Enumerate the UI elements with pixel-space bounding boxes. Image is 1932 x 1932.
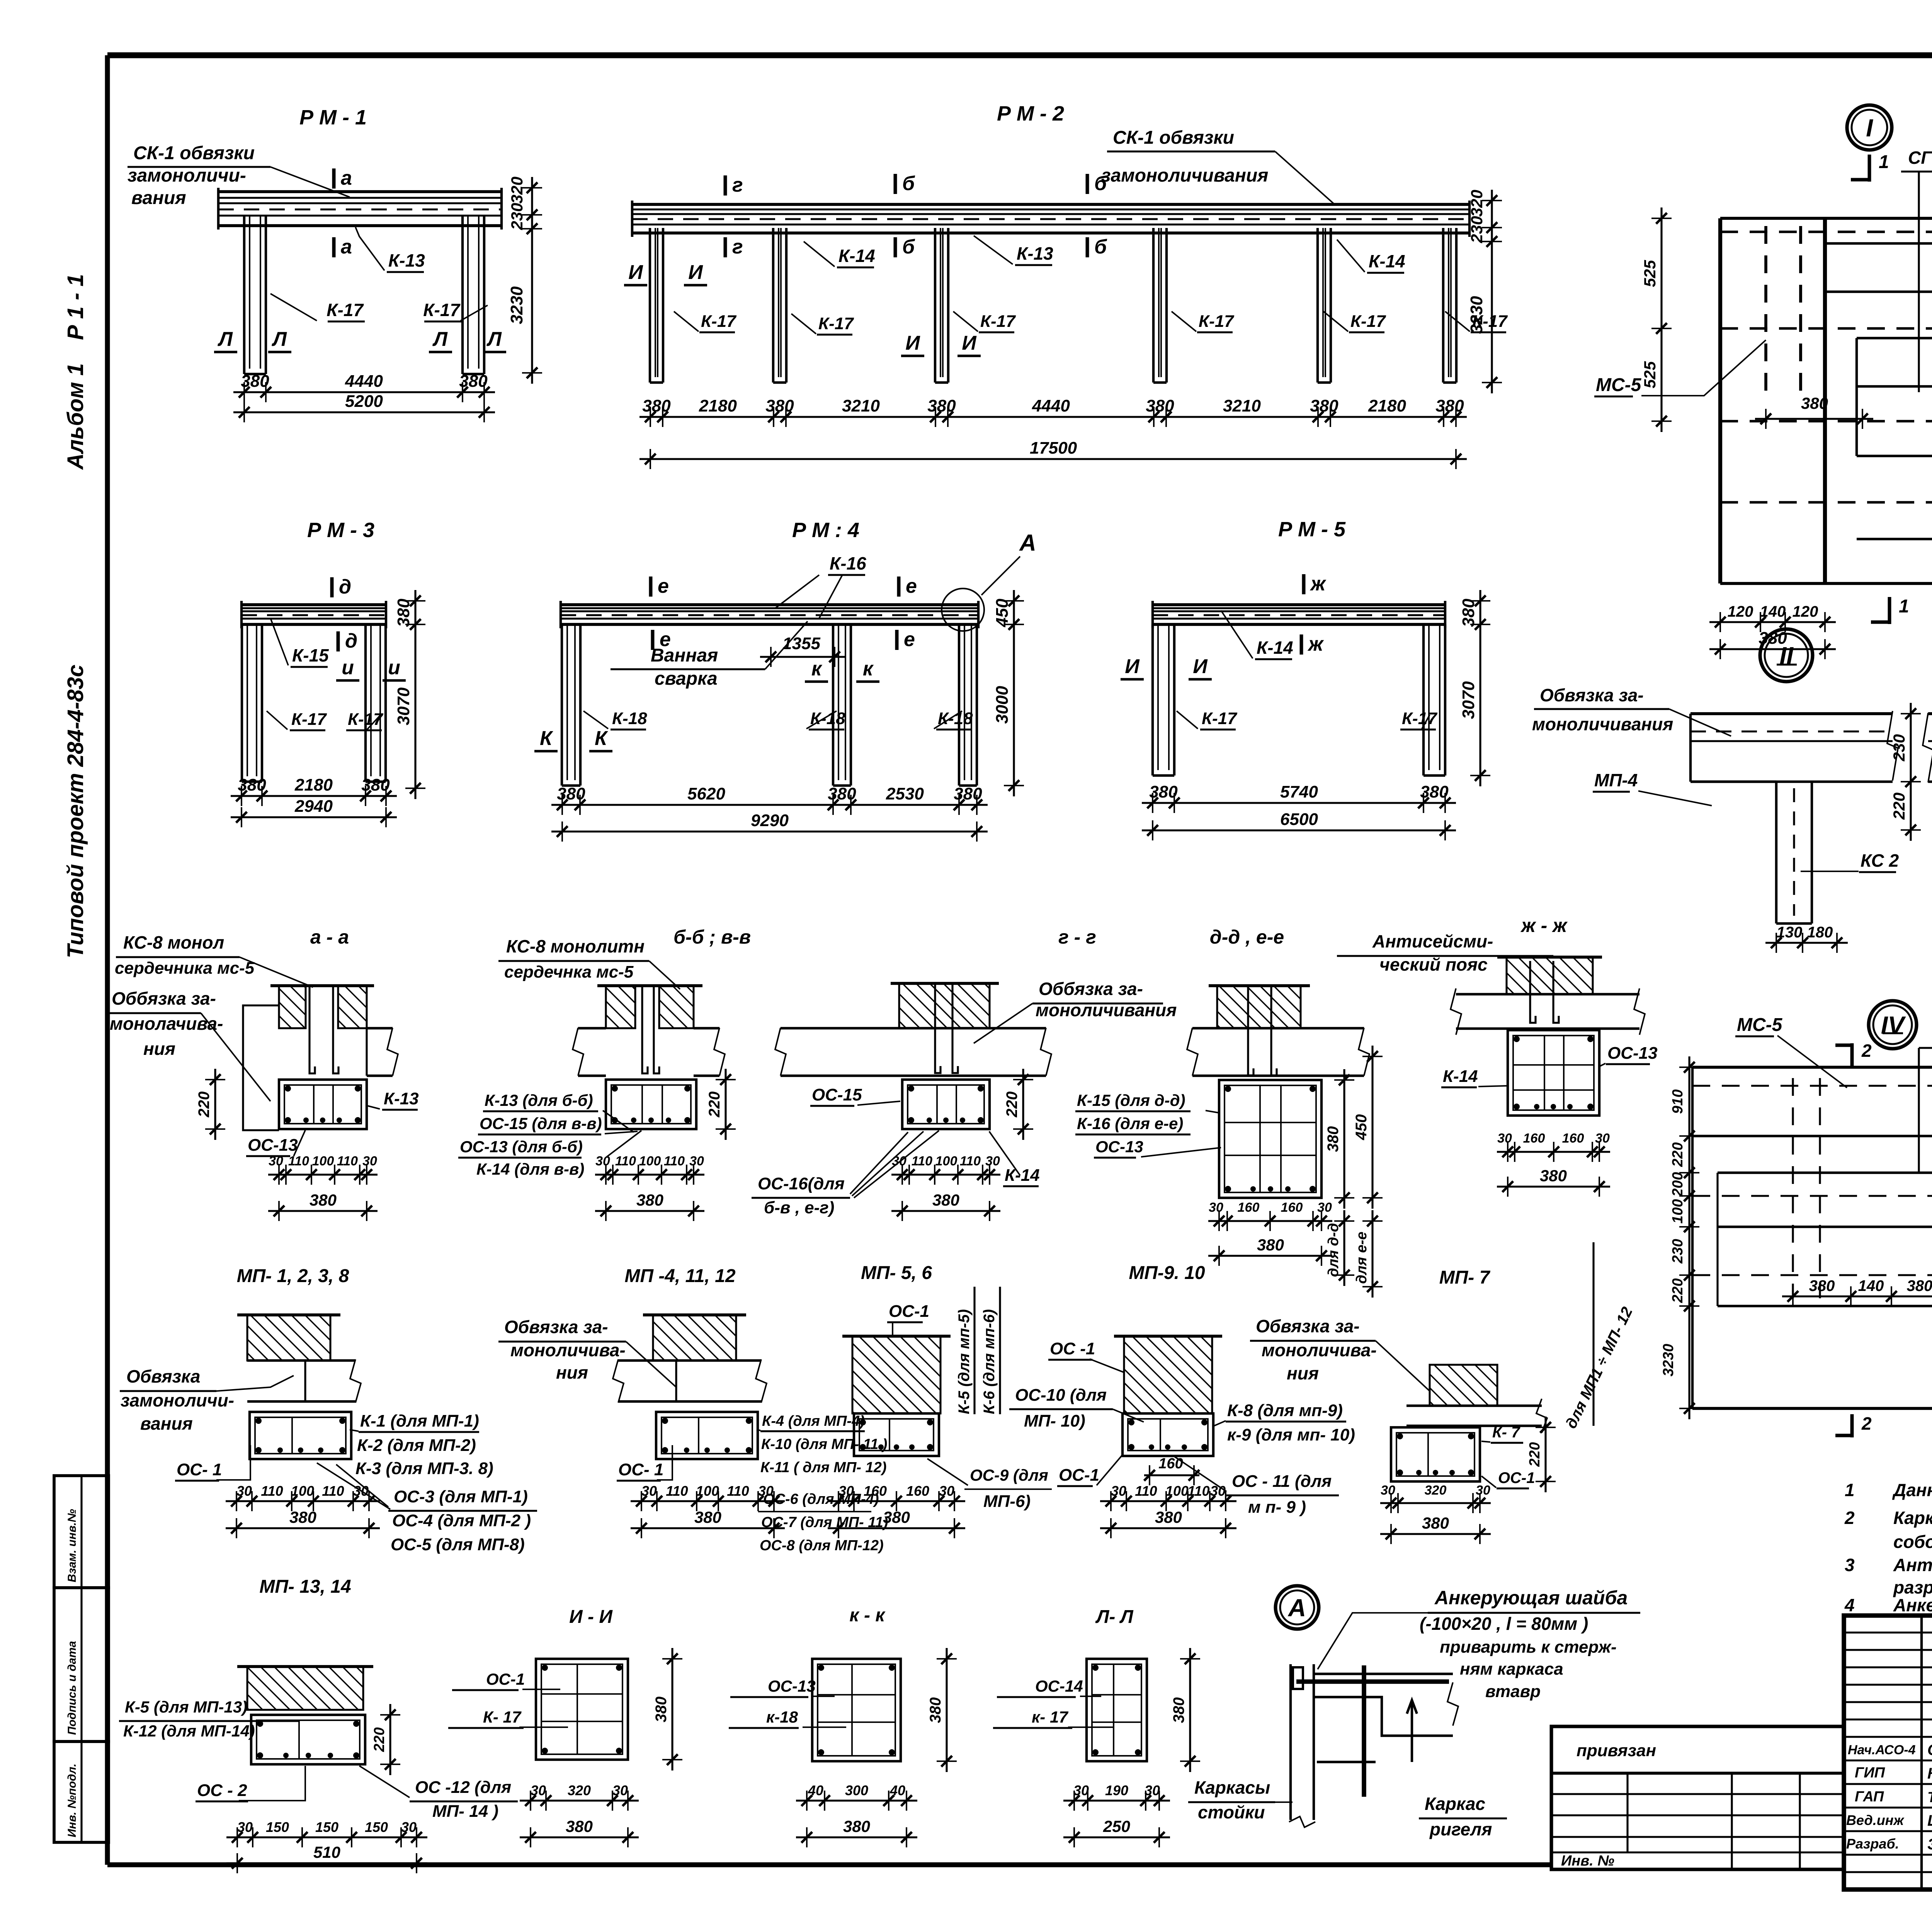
svg-text:120: 120: [1793, 603, 1818, 620]
svg-text:Л: Л: [217, 328, 233, 350]
svg-text:и: и: [342, 656, 354, 679]
svg-text:Данный лист см. совместно: Данный лист см. совместно с листами АС-8…: [1892, 1480, 1932, 1500]
svg-text:110: 110: [1187, 1483, 1209, 1499]
node I plan dashed core MS-5: [1764, 226, 1767, 392]
svg-text:б-б ; в-в: б-б ; в-в: [673, 926, 751, 948]
svg-text:380: 380: [310, 1191, 337, 1209]
svg-text:А: А: [1019, 530, 1036, 556]
svg-text:Ванная: Ванная: [651, 645, 718, 666]
svg-text:30: 30: [892, 1154, 906, 1168]
svg-text:5740: 5740: [1280, 782, 1318, 801]
node I circle: [1847, 105, 1892, 150]
node IV plan outer rect: [1692, 1066, 1932, 1069]
leader ankernaya to washer: [1318, 1613, 1428, 1669]
node I plan dashed line 3: [1720, 420, 1932, 422]
svg-text:380: 380: [394, 599, 413, 627]
node A circle: [1276, 1586, 1319, 1629]
svg-text:100: 100: [639, 1154, 661, 1168]
svg-text:Взам. инв.№: Взам. инв.№: [66, 1509, 78, 1582]
svg-text:30: 30: [595, 1154, 610, 1168]
svg-text:380: 380: [1907, 1277, 1932, 1294]
svg-text:110: 110: [261, 1483, 283, 1499]
frame RM-4 column 3: [958, 624, 960, 786]
svg-text:ОС-10 (для: ОС-10 (для: [1015, 1386, 1107, 1405]
node I vertical dim 525 525: [1660, 207, 1662, 432]
svg-text:е: е: [904, 628, 915, 651]
RM-1 right vertical dimensions 320 230 3230: [531, 177, 533, 384]
detail MP-7 drawing: [1430, 1365, 1497, 1406]
svg-text:380: 380: [1435, 396, 1464, 415]
svg-text:К-17: К-17: [818, 314, 854, 333]
svg-text:привязан: привязан: [1577, 1741, 1656, 1760]
detail I-I square: [536, 1659, 628, 1760]
RM-1 dimension row 380 4440 380: [233, 391, 495, 393]
svg-text:230: 230: [1670, 1239, 1686, 1264]
svg-text:МП -4, 11, 12: МП -4, 11, 12: [624, 1266, 735, 1286]
svg-text:разработаны на листе АС-15: разработаны на листе АС-15: [1893, 1577, 1932, 1597]
svg-text:17500: 17500: [1030, 439, 1077, 457]
svg-text:220: 220: [1527, 1442, 1543, 1467]
svg-text:5200: 5200: [345, 392, 383, 411]
svg-text:3230: 3230: [1660, 1344, 1677, 1377]
leader fan to b-b cage: [603, 1111, 634, 1132]
RM-3 dimension row 2940: [231, 816, 397, 818]
frame RM-1 left column K-17: [243, 216, 245, 374]
svg-text:К-5 (для МП-13): К-5 (для МП-13): [125, 1698, 247, 1716]
node IV inner dims 380 140 380: [1782, 1295, 1932, 1297]
svg-text:380: 380: [1422, 1514, 1449, 1532]
frame RM-1 beam: [218, 190, 502, 193]
svg-text:ОС-13: ОС-13: [248, 1136, 298, 1155]
section zh-zh cage: [1508, 1030, 1599, 1116]
frame RM-4 column 2: [832, 624, 834, 786]
svg-text:4440: 4440: [345, 372, 383, 391]
svg-text:380: 380: [1809, 1277, 1835, 1294]
svg-text:МП- 13, 14: МП- 13, 14: [259, 1577, 351, 1597]
node II step: [1690, 781, 1776, 783]
svg-text:сварка: сварка: [655, 668, 718, 689]
svg-text:Подпись и дата: Подпись и дата: [66, 1641, 78, 1735]
frame RM-2 column 2: [772, 228, 774, 383]
node A beam cage horizontal: [1314, 1673, 1453, 1675]
svg-text:2180: 2180: [699, 396, 737, 415]
svg-text:380: 380: [932, 1191, 959, 1209]
svg-text:ОС-9 (для: ОС-9 (для: [970, 1466, 1048, 1484]
svg-text:ж: ж: [1310, 573, 1327, 595]
detail MP-1 drawing: [247, 1315, 330, 1361]
detail MP-9 drawing: [1124, 1336, 1212, 1413]
node IV plan solid bands: [1692, 1135, 1932, 1137]
I-I right 380 dim: [671, 1648, 673, 1770]
svg-text:К-13: К-13: [384, 1089, 419, 1108]
zh mark upper: [1302, 574, 1306, 594]
frame RM-5 beam: [1153, 603, 1445, 606]
svg-text:4440: 4440: [1032, 396, 1070, 415]
svg-text:380: 380: [1155, 1508, 1182, 1526]
svg-text:ОС-8 (для МП-12): ОС-8 (для МП-12): [760, 1537, 884, 1554]
MP-4 dims: [631, 1500, 785, 1502]
MP-5 dims: [828, 1500, 965, 1502]
svg-text:А: А: [1287, 1594, 1306, 1622]
svg-text:Цогоева: Цогоева: [1927, 1812, 1932, 1829]
section b-b cage: [606, 1080, 696, 1129]
svg-text:Анкеры СА-1 см. в альбоме: Анкеры СА-1 см. в альбоме серии 2.140-1с…: [1893, 1595, 1932, 1615]
frame RM-3 right column: [364, 624, 367, 782]
svg-text:К-14: К-14: [1443, 1067, 1478, 1086]
svg-text:к- 17: к- 17: [1032, 1708, 1068, 1726]
svg-text:К: К: [540, 727, 553, 750]
svg-text:ческий пояс: ческий пояс: [1379, 954, 1488, 975]
section d-d rebar hooks: [1248, 986, 1253, 1075]
svg-text:Оббязка за-: Оббязка за-: [112, 988, 216, 1009]
svg-text:ОС-15: ОС-15: [812, 1085, 862, 1104]
svg-text:160: 160: [1562, 1131, 1584, 1146]
svg-text:ГИП: ГИП: [1855, 1765, 1885, 1781]
svg-text:ОС-16(для: ОС-16(для: [758, 1174, 845, 1193]
svg-text:И: И: [1125, 655, 1140, 678]
node IV plan dashed lines: [1692, 1085, 1932, 1087]
svg-text:380: 380: [289, 1508, 316, 1526]
section d-d cage: [1219, 1080, 1321, 1198]
section b-b bands: [578, 1027, 606, 1029]
svg-text:110: 110: [912, 1154, 932, 1168]
svg-text:450: 450: [1353, 1114, 1370, 1141]
detail MP-5 drawing: [852, 1336, 940, 1413]
RM-2 dimension row widths: [639, 416, 1467, 418]
svg-text:К-13: К-13: [1017, 243, 1053, 264]
node I plan step rect: [1857, 337, 1932, 339]
RM-2 dimension row 17500: [639, 458, 1467, 460]
svg-text:Типовой проект 284-4-83с: Типовой проект 284-4-83с: [63, 665, 88, 958]
svg-text:К-12 (для МП-14): К-12 (для МП-14): [123, 1722, 255, 1740]
svg-text:110: 110: [288, 1154, 309, 1168]
svg-text:40: 40: [808, 1782, 823, 1798]
svg-text:К-17: К-17: [423, 300, 461, 320]
svg-text:К-18: К-18: [938, 709, 973, 728]
I-I dims: [520, 1799, 639, 1801]
svg-text:320: 320: [508, 177, 526, 204]
svg-text:вания: вания: [131, 188, 186, 208]
svg-text:К- 7: К- 7: [1492, 1424, 1520, 1441]
e marks RM-4: [649, 577, 653, 597]
svg-text:140: 140: [1760, 603, 1786, 620]
svg-text:К-16: К-16: [830, 553, 866, 573]
svg-text:380: 380: [1801, 394, 1828, 412]
svg-text:МП-6): МП-6): [983, 1492, 1031, 1511]
frame RM-4 column 1: [561, 624, 563, 786]
svg-text:ОС- 1: ОС- 1: [177, 1460, 222, 1479]
svg-text:ОС-13 (для б-б): ОС-13 (для б-б): [460, 1138, 583, 1156]
svg-text:30: 30: [838, 1483, 854, 1499]
svg-text:380: 380: [1149, 782, 1178, 801]
svg-text:моноличива-: моноличива-: [1262, 1340, 1377, 1360]
svg-text:И: И: [905, 332, 920, 354]
svg-text:Л: Л: [486, 328, 502, 350]
svg-text:Антисейсмические пояса и об: Антисейсмические пояса и обвязки замонол…: [1893, 1555, 1932, 1575]
svg-text:ОС-3 (для МП-1): ОС-3 (для МП-1): [394, 1487, 528, 1506]
leader SK-1 to beam: [270, 167, 350, 197]
svg-text:150: 150: [315, 1819, 338, 1835]
svg-text:100: 100: [696, 1483, 719, 1499]
svg-text:МП-4: МП-4: [1594, 770, 1638, 790]
title block outer frame: [1844, 1616, 1932, 1889]
svg-text:30: 30: [1145, 1782, 1160, 1798]
node II slab: [1690, 712, 1893, 715]
svg-text:К-8 (для мп-9): К-8 (для мп-9): [1227, 1401, 1343, 1420]
svg-text:К-16 (для е-е): К-16 (для е-е): [1077, 1114, 1183, 1133]
svg-text:к: к: [811, 658, 823, 680]
svg-text:Обвязка за-: Обвязка за-: [1256, 1316, 1360, 1336]
RM-5 dimension row 380 5740 380: [1142, 802, 1456, 804]
svg-text:К-13: К-13: [388, 250, 425, 270]
section mark b upper 1: [894, 174, 897, 194]
svg-text:ОС - 11 (для: ОС - 11 (для: [1232, 1472, 1332, 1491]
svg-text:40: 40: [889, 1782, 905, 1798]
svg-text:г: г: [732, 236, 743, 258]
svg-text:СК-1 обвязки: СК-1 обвязки: [133, 143, 255, 163]
svg-text:к: к: [863, 658, 874, 680]
svg-text:2180: 2180: [294, 776, 333, 794]
svg-text:380: 380: [238, 776, 266, 794]
detail L-L rect: [1087, 1659, 1147, 1761]
title block small table rows upper: [1844, 1631, 1932, 1633]
svg-text:380: 380: [927, 1697, 944, 1723]
section mark a lower: [332, 237, 336, 257]
svg-text:1: 1: [1899, 596, 1909, 617]
svg-text:а: а: [341, 236, 352, 258]
svg-text:110: 110: [727, 1483, 749, 1499]
stamp box Podpis i data: [54, 1588, 109, 1742]
RM-4 right vertical dimensions 450 3000: [1013, 590, 1015, 796]
svg-text:К-18: К-18: [810, 709, 845, 728]
section a-a left step outline: [243, 1005, 279, 1130]
svg-text:К-2 (для МП-2): К-2 (для МП-2): [357, 1436, 476, 1455]
svg-text:замоноличи-: замоноличи-: [128, 165, 246, 186]
svg-text:и: и: [388, 656, 400, 679]
svg-text:Каркас: Каркас: [1425, 1794, 1485, 1814]
svg-text:380: 380: [883, 1508, 910, 1526]
section cut mark 1 bottom: [1888, 597, 1891, 624]
section mark g lower: [724, 237, 727, 257]
svg-text:100: 100: [1165, 1483, 1189, 1499]
svg-text:а: а: [341, 167, 352, 189]
svg-text:К-17: К-17: [348, 710, 384, 729]
svg-text:ния: ния: [143, 1039, 175, 1059]
svg-text:КС-8 монолитн: КС-8 монолитн: [506, 936, 645, 956]
svg-text:380: 380: [927, 396, 956, 415]
svg-text:К-5 (для мп-5): К-5 (для мп-5): [956, 1309, 973, 1414]
K-K dims: [796, 1799, 917, 1801]
svg-text:110: 110: [666, 1483, 688, 1499]
svg-text:ОС-1: ОС-1: [486, 1670, 525, 1688]
detail MP-4 drawing: [653, 1315, 736, 1361]
section zh-zh band: [1456, 993, 1639, 995]
svg-text:Л- Л: Л- Л: [1095, 1607, 1133, 1627]
svg-text:ОС - 2: ОС - 2: [197, 1781, 247, 1800]
sheet frame left border: [105, 55, 110, 1865]
svg-text:Кулибаба: Кулибаба: [1927, 1765, 1932, 1782]
svg-text:Тахтаганов: Тахтаганов: [1927, 1789, 1932, 1806]
svg-text:30: 30: [1111, 1483, 1126, 1499]
svg-text:ОС-15 (для в-в): ОС-15 (для в-в): [480, 1114, 602, 1133]
svg-text:380: 380: [653, 1697, 670, 1723]
svg-text:Каркасы стоек и ригелей ра: Каркасы стоек и ригелей рам сварить межд…: [1893, 1508, 1932, 1528]
section mark b upper 2: [1086, 174, 1089, 194]
svg-text:30: 30: [1595, 1131, 1610, 1146]
svg-text:К-15: К-15: [292, 645, 329, 665]
svg-text:к-9 (для мп- 10): к-9 (для мп- 10): [1227, 1425, 1355, 1444]
svg-text:К-14: К-14: [838, 246, 875, 266]
svg-text:3230: 3230: [1467, 296, 1486, 334]
svg-text:200: 200: [1670, 1172, 1686, 1197]
svg-text:а - а: а - а: [310, 926, 349, 948]
svg-text:30: 30: [401, 1819, 417, 1835]
svg-text:110: 110: [664, 1154, 685, 1168]
svg-text:собой.: собой.: [1893, 1532, 1932, 1552]
node I plan dashed line 1: [1720, 231, 1932, 233]
node I bottom dims 120 140 120: [1709, 621, 1836, 623]
svg-text:К: К: [595, 727, 608, 750]
svg-text:100: 100: [1670, 1199, 1686, 1223]
RM-3 right vertical dimensions 380 3070: [414, 590, 416, 799]
svg-text:Р М : 4: Р М : 4: [792, 519, 859, 542]
svg-text:КС 2: КС 2: [1861, 850, 1899, 871]
svg-text:380: 380: [459, 372, 488, 391]
section g-g hatched block: [899, 983, 990, 1028]
svg-text:приварить к стерж-: приварить к стерж-: [1440, 1638, 1617, 1656]
node I plan wall verticals: [1718, 218, 1722, 583]
svg-text:30: 30: [939, 1483, 954, 1499]
svg-text:Разраб.: Разраб.: [1846, 1836, 1899, 1852]
svg-text:150: 150: [266, 1819, 289, 1835]
zh mark lower: [1300, 634, 1303, 655]
section a-a right band: [367, 1027, 393, 1029]
svg-text:МП- 14 ): МП- 14 ): [432, 1802, 498, 1821]
svg-text:30: 30: [1210, 1483, 1226, 1499]
svg-text:Р М - 1: Р М - 1: [299, 106, 367, 129]
svg-text:320: 320: [1468, 190, 1486, 217]
svg-text:Альбом 1: Альбом 1: [63, 363, 88, 470]
sheet frame top border: [107, 52, 1932, 58]
svg-text:И: И: [688, 261, 703, 284]
svg-text:м п- 9 ): м п- 9 ): [1248, 1498, 1306, 1517]
svg-text:100: 100: [291, 1483, 314, 1499]
svg-text:для д-д: для д-д: [1325, 1223, 1342, 1277]
svg-text:230: 230: [508, 203, 526, 230]
svg-text:К-17: К-17: [1202, 709, 1238, 728]
privyazan annex table: [1551, 1726, 1844, 1869]
svg-text:Нач.АСО-4: Нач.АСО-4: [1848, 1743, 1916, 1757]
node II bottom dims 130 180: [1765, 942, 1848, 944]
svg-text:И - И: И - И: [569, 1607, 613, 1627]
frame RM-1 right column K-17: [461, 216, 464, 374]
svg-text:380: 380: [954, 784, 982, 803]
svg-text:б: б: [1094, 172, 1107, 195]
node A thick bars: [1296, 1679, 1449, 1684]
svg-text:ж: ж: [1307, 633, 1324, 655]
svg-text:замоноличи-: замоноличи-: [121, 1390, 234, 1410]
svg-text:К-14 (для в-в): К-14 (для в-в): [476, 1160, 584, 1178]
svg-text:ж - ж: ж - ж: [1520, 915, 1568, 936]
svg-text:ОС-13: ОС-13: [768, 1677, 816, 1695]
b-b dims: [595, 1173, 704, 1175]
svg-text:380: 380: [843, 1817, 870, 1835]
svg-text:Р М - 3: Р М - 3: [307, 519, 374, 542]
svg-text:110: 110: [1135, 1483, 1157, 1499]
svg-text:3210: 3210: [1223, 396, 1261, 415]
node I plan beam band upper: [1825, 242, 1932, 245]
svg-text:250: 250: [1103, 1817, 1130, 1835]
svg-text:ОС-1: ОС-1: [889, 1302, 929, 1321]
svg-text:380: 380: [566, 1817, 593, 1835]
svg-text:5620: 5620: [687, 784, 725, 803]
svg-text:К-17: К-17: [1402, 709, 1438, 728]
svg-text:160: 160: [906, 1483, 929, 1499]
svg-text:Л: Л: [271, 328, 287, 350]
svg-text:IV: IV: [1881, 1011, 1906, 1039]
node III slab: [1928, 712, 1932, 715]
svg-text:К-13 (для б-б): К-13 (для б-б): [485, 1091, 593, 1109]
node I plan bottom line: [1720, 582, 1932, 585]
svg-text:300: 300: [845, 1782, 868, 1798]
svg-text:450: 450: [993, 599, 1012, 628]
svg-text:ням каркаса: ням каркаса: [1460, 1660, 1563, 1679]
svg-text:К-14: К-14: [1005, 1166, 1040, 1185]
svg-text:Л: Л: [432, 328, 448, 350]
leader fan OS-16: [850, 1132, 908, 1194]
svg-text:К-4 (для МП-4): К-4 (для МП-4): [762, 1413, 865, 1429]
frame RM-3 beam: [241, 603, 386, 606]
svg-text:100: 100: [935, 1154, 957, 1168]
svg-text:30: 30: [362, 1154, 377, 1168]
svg-text:30: 30: [612, 1782, 628, 1798]
svg-text:380: 380: [694, 1508, 721, 1526]
section b-b hatched blocks: [606, 986, 635, 1028]
section g-g rebar hooks: [935, 984, 940, 1073]
svg-text:3070: 3070: [1459, 681, 1478, 719]
svg-text:МП-9. 10: МП-9. 10: [1129, 1263, 1205, 1283]
detail K-K square: [812, 1659, 901, 1761]
svg-text:К-14: К-14: [1257, 638, 1293, 658]
svg-text:МП- 5, 6: МП- 5, 6: [861, 1263, 932, 1283]
svg-text:9290: 9290: [751, 811, 789, 830]
svg-text:сердечника мс-5: сердечника мс-5: [115, 959, 255, 978]
section mark d upper: [330, 577, 334, 597]
section a-a 220 dim: [214, 1069, 216, 1140]
svg-text:220: 220: [371, 1727, 388, 1752]
detail MP-13 drawing: [247, 1667, 363, 1710]
svg-text:1: 1: [1845, 1480, 1855, 1500]
frame RM-4 beam: [561, 603, 978, 606]
svg-text:Антисейсми-: Антисейсми-: [1372, 931, 1493, 951]
svg-text:ОС -12 (для: ОС -12 (для: [415, 1778, 511, 1797]
svg-text:3: 3: [1845, 1555, 1855, 1575]
frame RM-5 left column: [1151, 624, 1154, 776]
svg-text:30: 30: [1317, 1200, 1332, 1215]
section zh-zh rebar hooks: [1530, 961, 1536, 1023]
section a-a rebar hooks: [310, 986, 315, 1073]
svg-text:К- 17: К- 17: [483, 1708, 522, 1726]
svg-text:ГАП: ГАП: [1855, 1789, 1884, 1805]
svg-text:320: 320: [568, 1782, 591, 1798]
svg-text:ния: ния: [556, 1362, 588, 1383]
section zh-zh hatched block: [1507, 957, 1593, 994]
svg-text:30: 30: [236, 1483, 252, 1499]
section g-g 220 dim: [1022, 1069, 1024, 1140]
svg-text:4: 4: [1844, 1595, 1855, 1615]
frame RM-2 column 3: [934, 228, 936, 383]
node I plan lower band: [1857, 455, 1932, 457]
